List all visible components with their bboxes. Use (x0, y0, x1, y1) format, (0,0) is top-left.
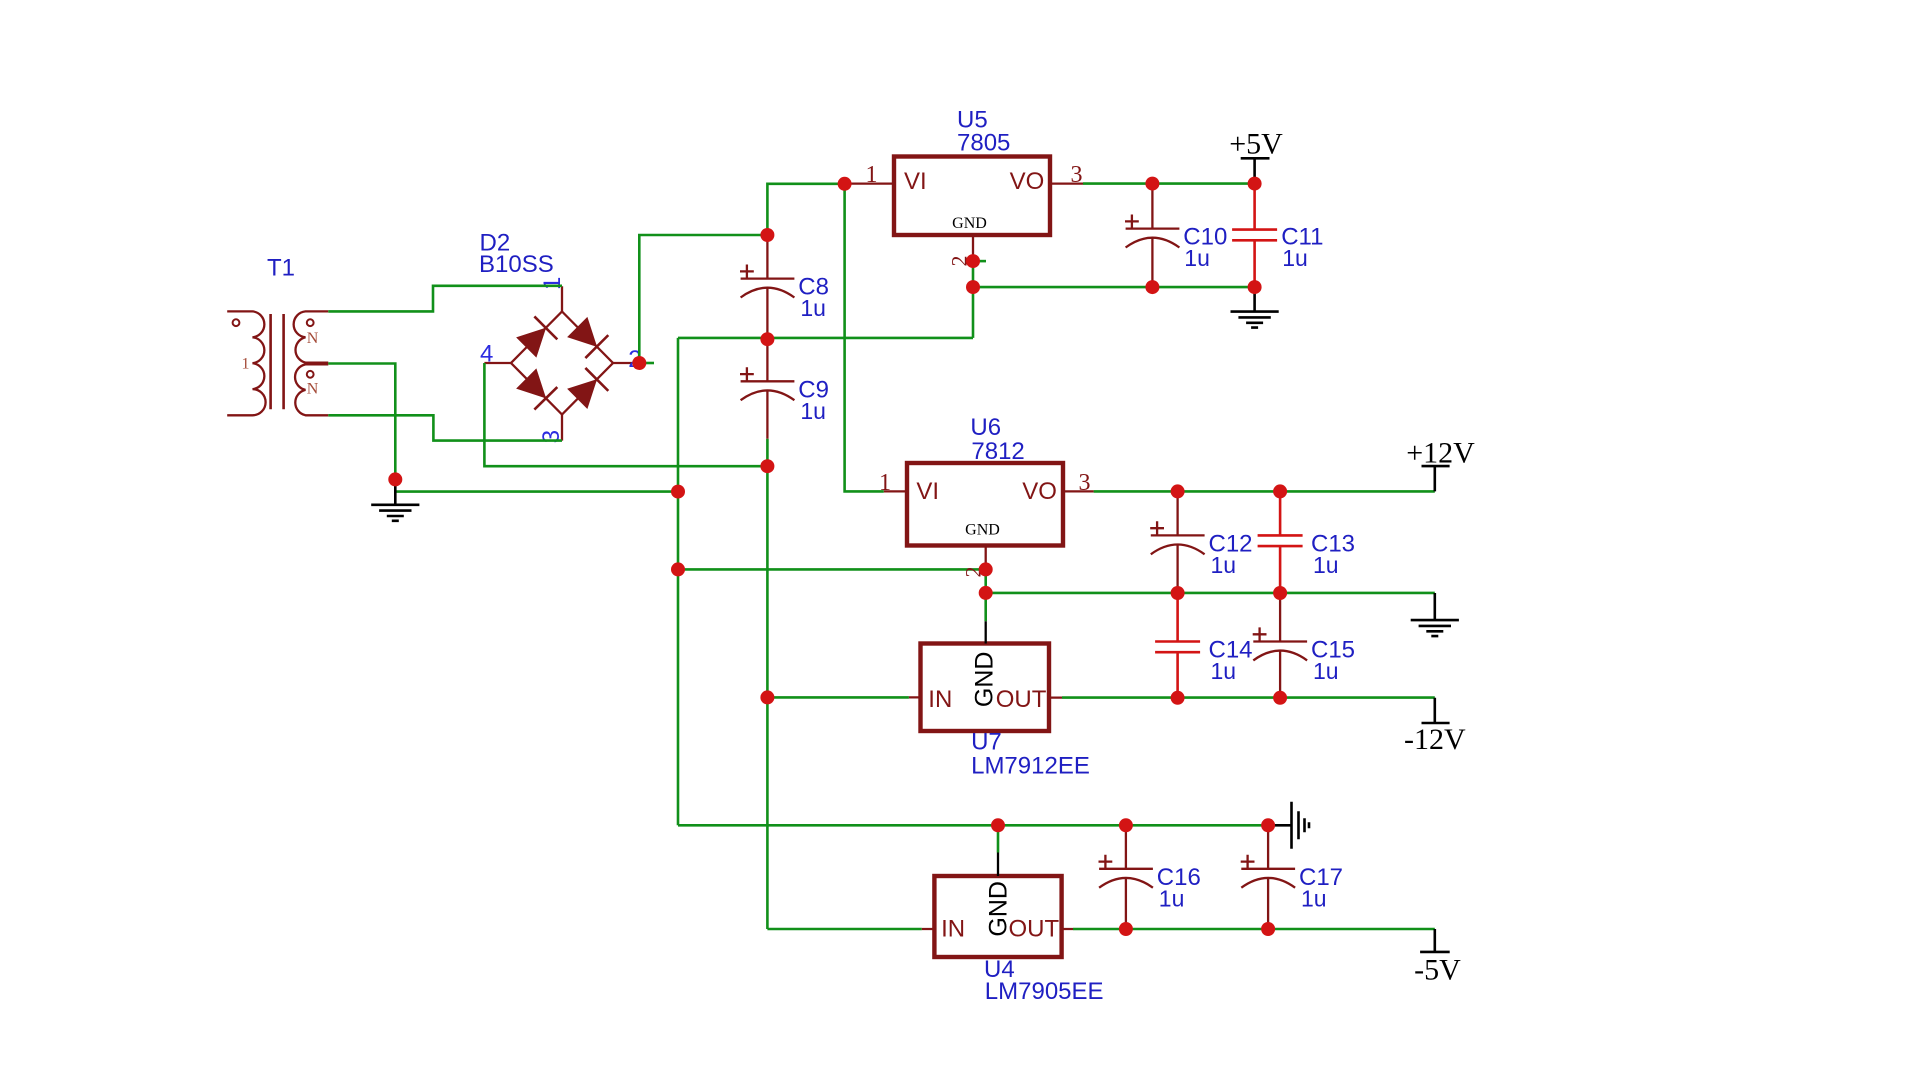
wire negative trunk to U4 IN (767, 928, 921, 931)
wire C9 bottom lead (766, 439, 769, 466)
junction (U6 pin 2 / mid ground rail) (979, 586, 993, 600)
wire U4 OUT to -5V rail (1073, 928, 1435, 931)
svg-text:VI: VI (916, 478, 939, 505)
power flag +12V (1406, 436, 1475, 491)
junction (C17 bottom) (1261, 922, 1275, 936)
junction (C11 top) (1248, 177, 1262, 191)
wire U5 VI node down to U6 VI (845, 184, 884, 492)
svg-text:1: 1 (242, 355, 250, 372)
svg-text:B10SS: B10SS (479, 251, 554, 278)
svg-text:LM7905EE: LM7905EE (985, 978, 1104, 1005)
junction (C11 bottom) (1248, 280, 1262, 294)
capacitor C14 (non-polarized) (1155, 593, 1200, 698)
svg-text:1u: 1u (800, 295, 826, 321)
wire negative trunk C9 bottom down to U4 (766, 466, 769, 929)
voltage regulator U4 (LM7905EE) (922, 853, 1073, 958)
svg-text:1u: 1u (1211, 552, 1237, 578)
svg-text:IN: IN (941, 915, 965, 942)
wire U7 OUT to -12V rail (1062, 696, 1435, 699)
power flag +5V (1229, 128, 1283, 183)
wire GND trunk to U6 pin 2 (678, 568, 986, 571)
power flag -12V (1404, 698, 1466, 756)
junction (C16 bottom) (1119, 922, 1133, 936)
svg-text:+5V: +5V (1229, 128, 1283, 161)
junction (C10 bottom) (1145, 280, 1159, 294)
svg-text:LM7912EE: LM7912EE (971, 753, 1090, 780)
svg-text:7812: 7812 (971, 438, 1024, 465)
junction (negative trunk / U7 IN) (760, 690, 774, 704)
wire stub at U5 pin 2 (973, 260, 986, 263)
svg-text:OUT: OUT (1009, 915, 1060, 942)
svg-text:1u: 1u (1282, 245, 1308, 271)
junction (C12 bottom) (1171, 586, 1185, 600)
wire U5 VO to +5V rail (1083, 182, 1255, 185)
U7 GND pin lead (black) (985, 621, 987, 643)
svg-text:1u: 1u (1184, 245, 1210, 271)
diode D2b (1 to 2) (568, 318, 608, 358)
capacitor C11 (non-polarized) (1232, 184, 1277, 288)
junction (C8 top) (760, 228, 774, 242)
wire U5 pin 2 down (972, 261, 975, 338)
svg-text:T1: T1 (267, 255, 295, 282)
svg-text:N: N (307, 330, 319, 347)
svg-text:+12V: +12V (1406, 436, 1475, 469)
svg-text:U7: U7 (971, 728, 1002, 755)
wire U4 GND pin up (997, 825, 1000, 852)
svg-text:OUT: OUT (996, 686, 1047, 713)
diode D2a (4 to 1) (517, 316, 557, 356)
junction (GND trunk / U6 pin 2 wire) (671, 562, 685, 576)
wire U6 VO to +12V rail (1094, 490, 1435, 493)
wire T1 center tap to ground node (328, 364, 395, 480)
wire U6 pin 2 down (984, 569, 987, 621)
svg-text:N: N (307, 381, 319, 398)
wire stub at D2 pin 2 (646, 362, 654, 365)
svg-text:3: 3 (1079, 470, 1091, 496)
diode D2d (3 to 2) (568, 368, 608, 408)
junction (U4 GND tee) (991, 818, 1005, 832)
capacitor C9 (polarized) (740, 339, 794, 439)
junction (C9 bottom / negative trunk) (760, 459, 774, 473)
svg-text:GND: GND (971, 652, 999, 708)
wire T1 top secondary to D2 pin 1 (328, 286, 562, 312)
junction (C13 top) (1273, 484, 1287, 498)
capacitor C17 (polarized) (1241, 825, 1295, 929)
junction (C8 bottom / C9 top) (760, 332, 774, 346)
wire T1 bottom secondary to D2 pin 3 (328, 415, 562, 440)
diode D2c (4 to 3) (517, 369, 557, 409)
wire mid ground rail (C12 C13) (986, 592, 1435, 595)
wire +5V ground rail (973, 286, 1255, 289)
wire negative trunk to U7 IN (767, 696, 909, 699)
junction (C10 top) (1145, 177, 1159, 191)
voltage regulator U7 (LM7912EE) (909, 621, 1062, 731)
bridge rectifier D2 (484, 286, 639, 440)
svg-text:4: 4 (480, 341, 493, 368)
svg-text:1u: 1u (1313, 552, 1339, 578)
ground (right of C17, rotated) (1268, 802, 1309, 849)
junction (C12 top) (1171, 484, 1185, 498)
wire D2 pin 2 to C8 top (positive rail) (639, 235, 767, 363)
power flag -5V (1414, 929, 1461, 987)
junction (D2 pin 2) (632, 356, 646, 370)
capacitor C16 (polarized) (1099, 825, 1153, 929)
U4 GND pin lead (black) (997, 853, 999, 877)
svg-text:GND: GND (952, 215, 987, 232)
svg-text:1u: 1u (1159, 885, 1185, 911)
svg-text:1u: 1u (1301, 885, 1327, 911)
transformer T1 (227, 311, 328, 415)
svg-text:1: 1 (539, 277, 566, 290)
ground (transformer center tap) (371, 479, 419, 520)
svg-text:VI: VI (904, 168, 927, 195)
svg-text:7805: 7805 (957, 130, 1010, 157)
junction (U6 pin 2) (979, 562, 993, 576)
junction (C14 bottom) (1171, 691, 1185, 705)
junction (C15 bottom) (1273, 691, 1287, 705)
junction (C13 bottom) (1273, 586, 1287, 600)
svg-text:VO: VO (1010, 168, 1045, 195)
capacitor C12 (polarized) (1150, 491, 1204, 593)
svg-text:GND: GND (965, 522, 1000, 539)
wire ground rail to C16 C17 (678, 824, 1268, 827)
capacitor C8 (polarized) (740, 235, 794, 339)
svg-text:-12V: -12V (1404, 723, 1466, 756)
svg-text:VO: VO (1022, 478, 1057, 505)
junction (U5 ground rail tee) (966, 280, 980, 294)
svg-text:1u: 1u (1313, 658, 1339, 684)
capacitor C15 (polarized) (1253, 593, 1307, 698)
ground (mid rail right of C13) (1411, 593, 1459, 636)
svg-text:GND: GND (984, 881, 1012, 937)
wire C8 top to U5 VI (767, 184, 844, 235)
voltage regulator U6 (7812) (884, 463, 1094, 569)
ground (under C11) (1231, 287, 1279, 328)
wire D2 pin 4 to C9 bottom (negative rail) (484, 363, 767, 466)
svg-text:-5V: -5V (1414, 954, 1461, 987)
svg-text:1: 1 (866, 162, 878, 188)
voltage regulator U5 (7805) (850, 157, 1083, 262)
capacitor C13 (non-polarized) (1258, 491, 1303, 593)
wire ground node to GND trunk (395, 490, 678, 493)
capacitor C10 (polarized) (1125, 184, 1179, 288)
svg-text:1u: 1u (800, 398, 826, 424)
svg-text:IN: IN (928, 686, 952, 713)
junction (C16 top) (1119, 818, 1133, 832)
wire GND trunk vertical (677, 338, 680, 825)
junction (center tap ground node) (388, 472, 402, 486)
svg-text:1: 1 (879, 470, 891, 496)
wire C8 bottom to GND trunk (678, 337, 973, 340)
svg-text:1u: 1u (1211, 658, 1237, 684)
junction (U5 pin 2) (966, 254, 980, 268)
junction (C17 top) (1261, 818, 1275, 832)
junction (GND trunk / ground wire) (671, 485, 685, 499)
svg-text:3: 3 (1071, 162, 1083, 188)
junction (U5 VI node) (838, 177, 852, 191)
